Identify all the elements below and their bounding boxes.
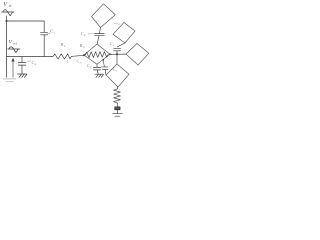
svg-text:m: m bbox=[84, 34, 86, 37]
label Ca with leader tilde bbox=[27, 60, 37, 66]
node C (junction dot) bbox=[116, 53, 118, 55]
label Ra bbox=[60, 42, 66, 48]
ground (below Cm2) bbox=[95, 74, 104, 77]
diamond D3 (crystal X3) bbox=[126, 44, 149, 66]
resistor Rb (inside lattice) bbox=[85, 52, 108, 58]
label tilde (between D1 and D2) bbox=[114, 23, 121, 24]
wire down to C1 bbox=[43, 21, 45, 32]
wire lattice bottom to Cm2 bbox=[96, 64, 98, 67]
ground (below Ca) bbox=[18, 74, 27, 77]
node D (junction dot) bbox=[102, 59, 104, 61]
svg-text:s: s bbox=[116, 70, 117, 73]
label C1 with leader tilde bbox=[45, 29, 55, 36]
diamond D2 (crystal X2) bbox=[113, 23, 135, 44]
svg-text:L: L bbox=[66, 59, 70, 64]
label Cm1 bbox=[81, 31, 95, 37]
wire Cm1 to lattice top bbox=[97, 36, 99, 44]
svg-text:m: m bbox=[90, 66, 92, 69]
wire D1 to Cm1 bbox=[99, 28, 102, 33]
wire mid rail bbox=[7, 56, 52, 58]
node B (junction dot) bbox=[83, 54, 85, 56]
wire node C down to D4 bbox=[116, 54, 118, 64]
wire D4 to RL bbox=[116, 87, 118, 89]
arrow Vref (pointing up) bbox=[12, 58, 15, 77]
wire box to ground bbox=[116, 110, 118, 114]
wire lattice to D3 bbox=[110, 53, 126, 55]
label Vin bbox=[3, 2, 11, 8]
lattice diamond (bridge wires) bbox=[84, 44, 110, 64]
capacitor C1 bbox=[41, 32, 48, 35]
diamond D1 (crystal X1) bbox=[92, 4, 116, 28]
resistor RL (vertical zigzag) bbox=[114, 89, 121, 103]
wire lattice edge to Cs3 bbox=[103, 60, 104, 67]
source Vin (sine symbol) bbox=[2, 10, 15, 16]
source Vref (sine symbol) bbox=[8, 47, 20, 53]
capacitor Cm2 bbox=[93, 67, 100, 73]
svg-text:m: m bbox=[80, 61, 82, 64]
label Cs2 (inside D4) bbox=[113, 67, 117, 73]
capacitor Cs1 bbox=[114, 48, 121, 54]
node E (junction dot) bbox=[109, 53, 111, 55]
resistor Ra bbox=[51, 54, 73, 59]
diamond D4 (crystal X4) bbox=[106, 64, 129, 87]
wire Vin stem bbox=[6, 16, 8, 21]
wire left vertical bbox=[6, 21, 8, 77]
capacitor Ca bbox=[18, 57, 26, 74]
svg-text:V: V bbox=[9, 40, 13, 46]
label Cs1 bbox=[110, 41, 114, 47]
box (small element) bbox=[115, 107, 120, 110]
svg-text:V: V bbox=[3, 2, 8, 8]
svg-text:in: in bbox=[9, 4, 12, 8]
ground (bottom) bbox=[113, 114, 123, 117]
svg-text:a: a bbox=[64, 45, 66, 48]
label Vref bbox=[9, 40, 18, 46]
wire top rail bbox=[7, 20, 45, 22]
svg-text:b: b bbox=[83, 46, 85, 49]
capacitor Cs3 bbox=[102, 67, 108, 75]
wire C1 to mid rail bbox=[43, 35, 45, 57]
node A (junction dot) bbox=[6, 20, 8, 22]
svg-text:s: s bbox=[113, 44, 114, 47]
svg-text:ref: ref bbox=[13, 41, 18, 45]
capacitor Cm1 bbox=[95, 34, 104, 36]
label Cm2 bbox=[87, 63, 92, 69]
wire Ra to node bbox=[73, 55, 85, 56]
label L1 (faint) bbox=[66, 59, 70, 64]
svg-text:1: 1 bbox=[53, 31, 55, 35]
ground (faint, under left lines) bbox=[3, 79, 16, 82]
wire D2 to Cs1 bbox=[117, 43, 125, 47]
label Rb bbox=[79, 43, 85, 49]
wire RL to box bbox=[116, 103, 118, 107]
svg-text:a: a bbox=[35, 63, 37, 66]
label Cm (below wire) bbox=[74, 58, 82, 64]
